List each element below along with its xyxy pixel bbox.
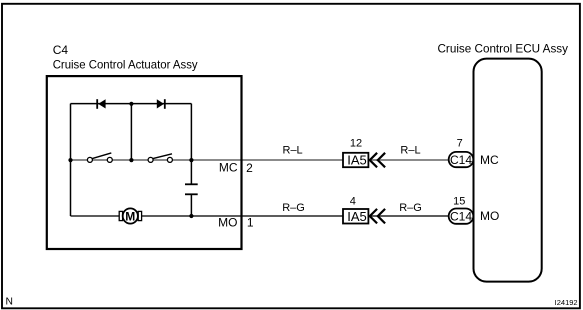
svg-text:7: 7	[457, 138, 463, 150]
svg-text:MC: MC	[480, 153, 499, 167]
svg-text:2: 2	[246, 161, 253, 175]
svg-text:MO: MO	[218, 216, 237, 230]
svg-text:M: M	[125, 209, 135, 223]
svg-text:C14: C14	[450, 209, 472, 223]
svg-text:I24192: I24192	[555, 298, 578, 307]
svg-text:R–L: R–L	[400, 145, 420, 157]
svg-text:Cruise Control Actuator Assy: Cruise Control Actuator Assy	[53, 58, 198, 72]
svg-text:N: N	[6, 297, 13, 308]
svg-text:Cruise Control ECU Assy: Cruise Control ECU Assy	[438, 41, 569, 55]
svg-text:15: 15	[453, 195, 465, 207]
svg-text:12: 12	[350, 138, 362, 150]
svg-text:R–G: R–G	[282, 202, 305, 214]
svg-text:MO: MO	[480, 209, 499, 223]
svg-text:C4: C4	[53, 43, 69, 57]
svg-text:IA5: IA5	[347, 209, 367, 224]
svg-text:IA5: IA5	[347, 153, 367, 168]
svg-text:C14: C14	[450, 153, 472, 167]
svg-text:4: 4	[350, 195, 356, 207]
svg-text:MC: MC	[219, 161, 238, 175]
svg-text:R–G: R–G	[399, 202, 422, 214]
svg-text:1: 1	[247, 216, 254, 230]
svg-text:R–L: R–L	[283, 145, 303, 157]
